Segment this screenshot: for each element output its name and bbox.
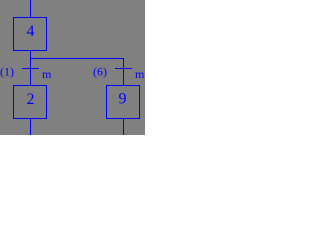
svg-text:9: 9 [119,91,127,108]
svg-text:(1): (1) [0,65,14,79]
svg-text:m: m [135,67,145,81]
svg-text:2: 2 [27,91,35,108]
svg-text:(6): (6) [93,65,107,79]
svg-text:4: 4 [27,23,35,40]
svg-text:m: m [42,67,52,81]
